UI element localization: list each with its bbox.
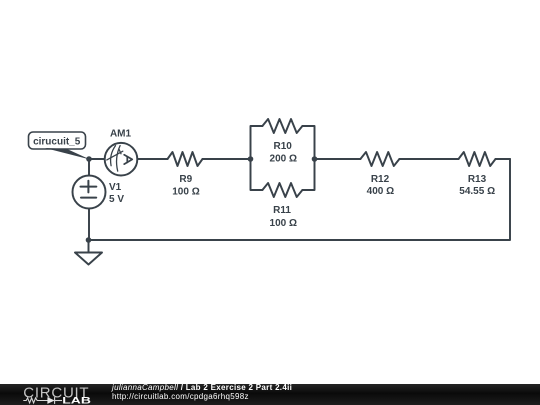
svg-text:R11: R11 — [273, 205, 291, 216]
svg-text:200 Ω: 200 Ω — [270, 154, 297, 165]
svg-text:54.55 Ω: 54.55 Ω — [459, 186, 495, 197]
svg-text:5 V: 5 V — [109, 194, 124, 205]
svg-text:100 Ω: 100 Ω — [270, 218, 297, 229]
svg-text:AM1: AM1 — [110, 129, 132, 140]
svg-text:R10: R10 — [274, 141, 293, 152]
svg-text:V1: V1 — [109, 182, 122, 193]
svg-text:LAB: LAB — [62, 396, 91, 405]
svg-text:R13: R13 — [468, 174, 487, 185]
svg-text:R12: R12 — [371, 174, 390, 185]
svg-text:cirucuit_5: cirucuit_5 — [33, 136, 81, 147]
svg-text:R9: R9 — [179, 174, 192, 185]
svg-text:100 Ω: 100 Ω — [172, 187, 199, 198]
svg-text:400 Ω: 400 Ω — [367, 186, 394, 197]
